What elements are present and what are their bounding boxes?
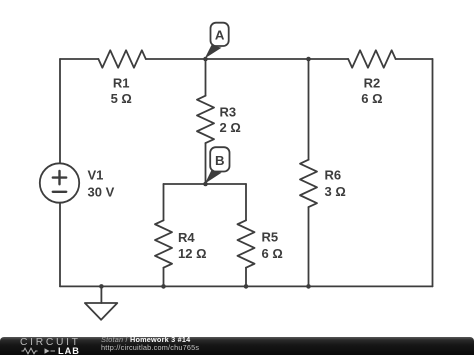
wire R2 left lead	[309, 58, 349, 60]
junction ground dot	[99, 284, 104, 289]
wire top rail to node A	[146, 58, 206, 60]
junction node A dot	[203, 57, 208, 62]
wire R5 bottom lead	[245, 268, 247, 287]
wire left rail lower	[59, 203, 61, 287]
svg-text:5 Ω: 5 Ω	[111, 91, 132, 106]
wire left rail upper	[59, 59, 61, 163]
svg-text:12 Ω: 12 Ω	[178, 246, 207, 261]
junction R5 bottom dot	[244, 284, 249, 289]
svg-text:6 Ω: 6 Ω	[361, 91, 382, 106]
resistor R3	[197, 96, 241, 143]
svg-text:R5: R5	[262, 230, 279, 245]
junction top R6 branch dot	[306, 57, 311, 62]
wire top rail node A to R6 branch	[206, 58, 309, 60]
svg-text:B: B	[215, 153, 225, 168]
node B	[205, 147, 230, 183]
svg-text:6 Ω: 6 Ω	[262, 246, 283, 261]
resistor R5	[238, 220, 283, 267]
resistor R2	[348, 50, 395, 106]
svg-text:A: A	[215, 28, 225, 43]
wire R6 top lead	[308, 59, 310, 160]
wire bottom rail	[60, 285, 433, 287]
svg-text:2 Ω: 2 Ω	[220, 120, 241, 135]
node A	[205, 23, 229, 59]
wire R4 top lead	[163, 184, 165, 220]
ground	[85, 286, 117, 319]
svg-text:R2: R2	[364, 76, 381, 91]
voltage source V1	[40, 163, 115, 202]
wire R3 bottom lead to node B	[205, 143, 207, 184]
wire R5 top lead	[245, 184, 247, 220]
svg-text:V1: V1	[88, 168, 104, 183]
junction node B dot	[203, 182, 208, 187]
wire R3 top lead	[205, 59, 207, 96]
svg-text:R6: R6	[325, 168, 342, 183]
resistor R1	[98, 50, 145, 106]
junction R6 bottom dot	[306, 284, 311, 289]
resistor R4	[155, 220, 207, 267]
wire top rail left segment	[60, 58, 98, 60]
svg-text:R1: R1	[113, 76, 130, 91]
svg-text:R4: R4	[178, 230, 195, 245]
wire top rail right segment	[396, 58, 433, 60]
wire node B horizontal	[164, 183, 247, 185]
svg-text:3 Ω: 3 Ω	[325, 184, 346, 199]
svg-text:30 V: 30 V	[88, 185, 115, 200]
junction R4 bottom dot	[161, 284, 166, 289]
svg-text:R3: R3	[220, 105, 237, 120]
wire R6 bottom lead	[308, 207, 310, 286]
wire right rail	[432, 59, 434, 286]
wire R4 bottom lead	[163, 268, 165, 287]
resistor R6	[300, 160, 346, 207]
